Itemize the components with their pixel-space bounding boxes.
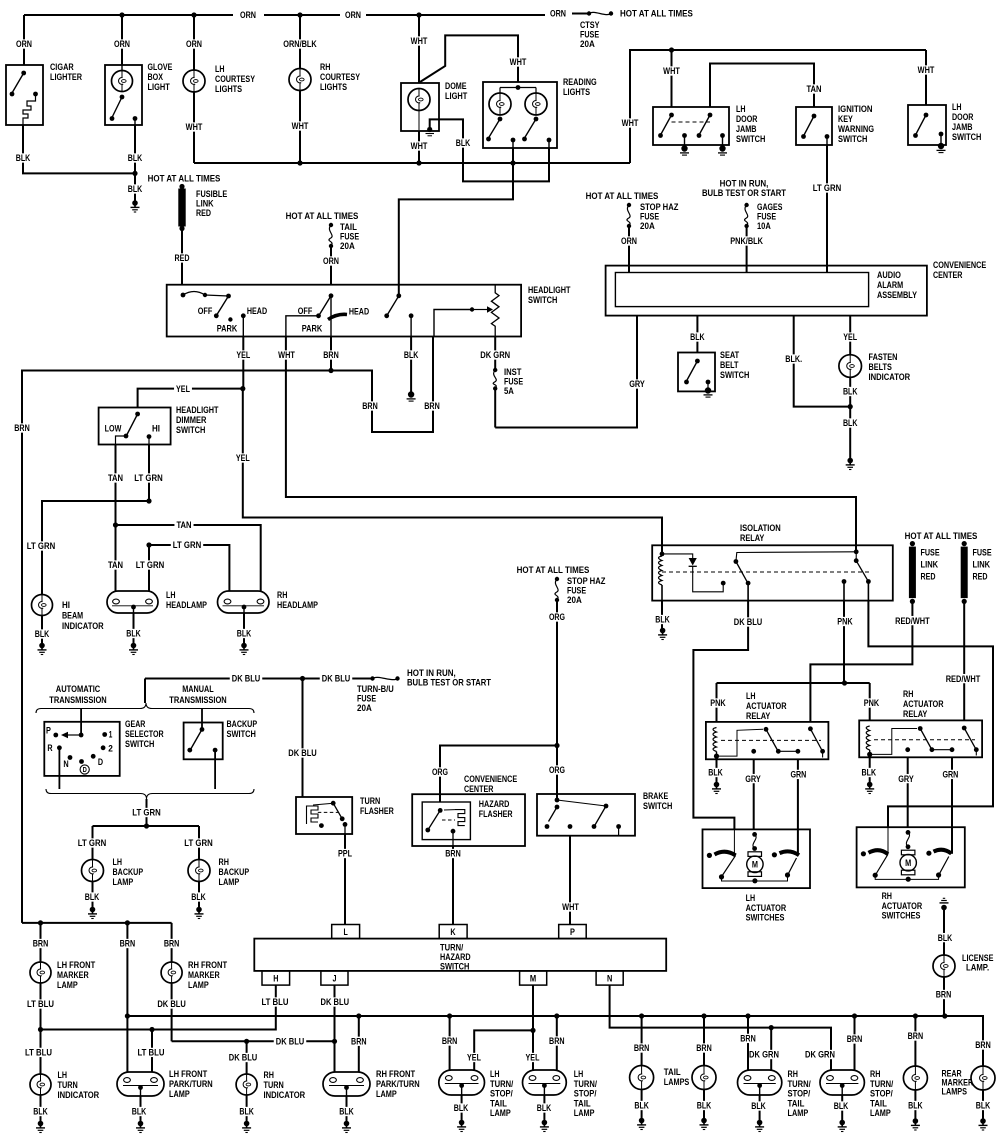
svg-text:SEAT: SEAT (720, 350, 739, 360)
svg-text:BLK: BLK (239, 1107, 254, 1117)
wire: feed to gear selector switch (80, 709, 82, 736)
node: BRN junction (328, 368, 333, 373)
connector: K (439, 925, 467, 939)
ground: RH headlamp (241, 643, 247, 649)
switch: RH actuator switches (857, 827, 965, 887)
svg-text:LOW: LOW (105, 424, 122, 434)
wire: LT GRN to backup lamps (93, 825, 200, 827)
lamp: RH turn/stop/tail lamp 1 (738, 1070, 782, 1095)
svg-text:BLK: BLK (454, 1103, 469, 1113)
svg-text:BLK.: BLK. (785, 354, 802, 364)
svg-text:TAIL: TAIL (664, 1067, 681, 1077)
svg-text:HI: HI (152, 424, 160, 434)
wire: BLK to seat belt switch (696, 316, 698, 353)
svg-text:JAMB: JAMB (952, 122, 973, 132)
svg-text:STOP/: STOP/ (870, 1089, 893, 1099)
svg-text:LIGHT: LIGHT (148, 82, 171, 92)
svg-text:LT GRN: LT GRN (136, 560, 165, 570)
svg-text:RH: RH (277, 590, 288, 600)
svg-text:MANUAL: MANUAL (182, 684, 214, 694)
ground: RH turn indicator (244, 1121, 250, 1127)
node: BRN at LH park/turn drop (125, 920, 130, 925)
fuse: TURN-B/U FUSE 20A (370, 676, 374, 680)
svg-text:RELAY: RELAY (740, 533, 765, 543)
node: bus at RH courtesy (297, 160, 302, 165)
wire: GRN LH relay to switches (797, 759, 799, 855)
wire: YEL to headlight dimmer switch (138, 389, 243, 408)
wire: GRY RH relay to switches (907, 757, 909, 827)
svg-text:BRN: BRN (120, 939, 136, 949)
switch: seat belt switch (678, 353, 715, 392)
headlight switch section 1 contacts (181, 293, 186, 298)
svg-text:LT GRN: LT GRN (78, 838, 107, 848)
svg-text:ACTUATOR: ACTUATOR (882, 901, 923, 911)
svg-text:ORG: ORG (549, 765, 565, 775)
svg-text:BELTS: BELTS (869, 362, 892, 372)
wire: RH turn/stop 2 BLK (841, 1095, 843, 1121)
svg-text:OFF: OFF (298, 306, 313, 316)
svg-text:LAMP: LAMP (490, 1108, 511, 1118)
headlight switch section 3 contacts (396, 293, 401, 298)
svg-text:SWITCHES: SWITCHES (746, 912, 785, 922)
svg-text:HOT IN RUN,: HOT IN RUN, (407, 668, 456, 678)
svg-text:10A: 10A (757, 221, 771, 231)
wire: PNK to RH actuator relay (869, 683, 871, 720)
wire: TAN to RH headlamp (116, 525, 261, 591)
svg-text:M: M (752, 860, 758, 870)
wire: DK GRN drop to RH turn/stop lamp 1 (770, 1028, 772, 1070)
svg-text:AUTOMATIC: AUTOMATIC (56, 684, 101, 694)
svg-text:RH: RH (788, 1069, 799, 1079)
svg-text:LT GRN: LT GRN (132, 808, 161, 818)
svg-text:IGNITION: IGNITION (838, 104, 873, 114)
wire: license lamp BRN to bus (943, 977, 945, 1016)
node: BRN bus at RH turn/stop 1 (745, 1013, 750, 1018)
svg-text:1: 1 (109, 730, 113, 740)
wire: BLK. from audio alarm to ground junction (794, 316, 851, 407)
wire: dome to reading lights WHT elbow (420, 35, 518, 82)
svg-text:WHT: WHT (411, 141, 428, 151)
svg-text:BRN: BRN (445, 849, 461, 859)
svg-text:TURN: TURN (58, 1080, 79, 1090)
ground: LH turn indicator (38, 1121, 44, 1127)
wire: top ORN feed bus (24, 14, 233, 16)
wire: LH door jamb to ignition key warning TAN (710, 64, 814, 108)
svg-text:RED: RED (196, 208, 211, 218)
svg-text:WHT: WHT (918, 65, 935, 75)
svg-text:ORN: ORN (114, 39, 130, 49)
svg-text:LAMP: LAMP (113, 877, 134, 887)
svg-text:CONVENIENCE: CONVENIENCE (464, 774, 517, 784)
svg-text:LIGHTS: LIGHTS (320, 82, 347, 92)
svg-text:BLK: BLK (655, 615, 670, 625)
svg-text:ISOLATION: ISOLATION (740, 523, 781, 533)
wire: PNK from isolation relay (843, 601, 845, 683)
svg-text:YEL: YEL (176, 384, 190, 394)
svg-text:FASTEN: FASTEN (869, 352, 898, 362)
switch: gear selector switch (44, 722, 119, 776)
lamp: LH headlamp (107, 591, 158, 613)
wire: BRN drop RH turn/stop 2 (854, 1016, 856, 1070)
svg-text:ORN: ORN (16, 39, 32, 49)
wire: BLK output to ground (410, 337, 412, 394)
ground: fasten belts (847, 458, 853, 464)
wire: RH courtesy WHT to bus (299, 91, 301, 164)
svg-text:KEY: KEY (838, 114, 853, 124)
wire: BRN distribution to front markers (22, 922, 172, 924)
svg-text:TRANSMISSION: TRANSMISSION (169, 695, 227, 705)
wire: gear selector R output to bracket (58, 748, 60, 789)
wire: LT BLU to LH turn indicator (40, 1030, 42, 1075)
lamp: LH turn/stop/tail lamp 1 (439, 1070, 485, 1095)
svg-text:TURN/: TURN/ (870, 1079, 894, 1089)
node: PNK junction (842, 680, 847, 685)
ground: LH headlamp (131, 643, 137, 649)
svg-text:ORN: ORN (240, 10, 256, 20)
svg-text:STOP/: STOP/ (490, 1089, 513, 1099)
ground: RH door jamb (938, 143, 944, 149)
wire: WHT bus riser to door jamb feed (630, 50, 926, 163)
wire: WHT courtesy bus (194, 162, 630, 164)
svg-text:FLASHER: FLASHER (479, 809, 513, 819)
relay: hazard flasher (422, 802, 470, 840)
ground: LH turn/stop lamp 2 (542, 1120, 548, 1126)
wire: BRN drop RH turn/stop 1 (747, 1016, 749, 1070)
svg-text:JAMB: JAMB (736, 124, 757, 134)
svg-text:ORN: ORN (621, 236, 637, 246)
wire: ORN stop haz fuse to audio alarm (628, 226, 630, 273)
wire: BRN drop tail lamp 2 (703, 1016, 705, 1066)
svg-text:BRN: BRN (696, 1043, 712, 1053)
node: BRN bus at LH park/turn (125, 1013, 130, 1018)
svg-text:SWITCH: SWITCH (838, 134, 868, 144)
lamp: RH backup lamp (188, 860, 210, 882)
svg-text:BLK: BLK (537, 1103, 552, 1113)
svg-text:WHT: WHT (510, 57, 527, 67)
svg-text:RED/WHT: RED/WHT (946, 674, 981, 684)
svg-text:LT BLU: LT BLU (138, 1048, 165, 1058)
wire: LH courtesy WHT to bus (193, 92, 195, 163)
svg-text:SWITCH: SWITCH (440, 962, 470, 972)
wire: WHT drop to LH door jamb switch (671, 50, 673, 107)
wire: rear marker 2 BLK (982, 1090, 984, 1120)
svg-text:LH: LH (574, 1069, 584, 1079)
svg-text:BLK: BLK (85, 892, 100, 902)
svg-text:LAMP: LAMP (574, 1108, 595, 1118)
svg-text:INDICATOR: INDICATOR (869, 372, 911, 382)
wire: BRN output of headlight switch (330, 337, 332, 371)
svg-text:HAZARD: HAZARD (440, 952, 471, 962)
wire: TAN from dimmer (115, 445, 117, 526)
lamp: dome light (401, 83, 439, 131)
svg-text:BLK: BLK (634, 1101, 649, 1111)
node: LT GRN junction to hi beam (146, 498, 151, 503)
wire: LT BLU from H to front bus (41, 985, 276, 1029)
wire: RH backup BLK (198, 882, 200, 909)
node: junction to LH door jamb (669, 47, 674, 52)
svg-text:HEADLIGHT: HEADLIGHT (176, 405, 219, 415)
svg-text:STOP/: STOP/ (788, 1089, 811, 1099)
wire: BRN loop to rheostat (331, 337, 433, 433)
svg-text:TURN/: TURN/ (574, 1079, 598, 1089)
wire: RH turn/stop 1 BLK (759, 1095, 761, 1121)
svg-text:WHT: WHT (622, 118, 639, 128)
switch: RH door jamb switch (908, 105, 946, 145)
box: audio alarm assembly (615, 273, 868, 307)
svg-text:BACKUP: BACKUP (113, 867, 144, 877)
wire: LH switches bottom rail (722, 875, 788, 881)
svg-text:SWITCH: SWITCH (720, 370, 750, 380)
lamp: glove box light with switch (105, 65, 142, 125)
ground: RH park/turn lamp (344, 1121, 350, 1127)
wire: PNK distribution (717, 682, 870, 684)
svg-text:PNK: PNK (710, 698, 726, 708)
svg-text:FUSE: FUSE (973, 548, 992, 558)
svg-text:LH: LH (215, 64, 225, 74)
svg-text:5A: 5A (504, 386, 514, 396)
ground: RH turn/stop lamp 2 (839, 1120, 845, 1126)
wire: fasten belts BLK (849, 377, 851, 406)
wire: YEL to LH turn/stop lamp 2 (532, 1030, 534, 1070)
svg-text:H: H (273, 973, 278, 983)
svg-text:RELAY: RELAY (746, 711, 771, 721)
relay: LH actuator relay (706, 722, 829, 759)
svg-text:2: 2 (108, 744, 113, 754)
wire: WHT output to isolation relay (286, 337, 856, 552)
wire: DK BLU from J to rear bus (334, 985, 336, 1041)
svg-text:HAZARD: HAZARD (479, 799, 510, 809)
switch: ignition key warning switch (796, 107, 832, 145)
wire: DK BLU to turn flasher (302, 679, 304, 798)
svg-text:DK BLU: DK BLU (734, 617, 763, 627)
svg-text:PNK/BLK: PNK/BLK (730, 236, 763, 246)
svg-text:BLK: BLK (697, 1101, 712, 1111)
switch: headlight switch (167, 285, 521, 337)
svg-text:BLK: BLK (132, 1107, 147, 1117)
svg-text:SWITCH: SWITCH (125, 739, 155, 749)
svg-text:SELECTOR: SELECTOR (125, 729, 164, 739)
svg-text:BLK: BLK (35, 629, 50, 639)
wire: WHT drop to dome light (418, 15, 420, 83)
wire: LT GRN from bracket (146, 799, 148, 826)
node: LT GRN backup junction (144, 823, 149, 828)
svg-text:GEAR: GEAR (125, 719, 146, 729)
ground: LH door jamb pin 2 (719, 145, 725, 151)
svg-text:RED: RED (175, 253, 190, 263)
node: bus junction at glove box (119, 12, 124, 17)
ground: tail lamp 1 (639, 1118, 645, 1124)
wire: LH headlamp BLK (133, 613, 135, 644)
svg-text:BOX: BOX (148, 72, 164, 82)
svg-text:BRN: BRN (975, 1040, 991, 1050)
svg-text:AUDIO: AUDIO (877, 270, 901, 280)
ground: hi beam indicator (39, 643, 45, 649)
svg-text:LH FRONT: LH FRONT (169, 1069, 207, 1079)
wire: ORN tail fuse to headlight switch (330, 246, 332, 285)
svg-text:BLK: BLK (128, 153, 143, 163)
svg-text:DK BLU: DK BLU (288, 748, 317, 758)
switch: turn/hazard switch (254, 939, 666, 971)
svg-text:FUSE: FUSE (921, 548, 940, 558)
wire: ORG to hazard flasher (440, 746, 557, 803)
node: YEL junction to dimmer (240, 386, 245, 391)
lamp: LH backup lamp (82, 860, 104, 882)
bracket: transmission connector brace upper (36, 703, 254, 713)
svg-text:GLOVE: GLOVE (148, 62, 173, 72)
svg-text:WHT: WHT (562, 902, 579, 912)
box: convenience center (hazard) (412, 794, 525, 846)
node: BRN bus at tail lamp 1 (639, 1013, 644, 1018)
svg-text:K: K (450, 927, 455, 937)
wire: LH turn/stop 2 BLK (543, 1095, 545, 1121)
lamp: hi beam indicator (32, 595, 53, 616)
node: DK BLU at RH turn indicator (244, 1039, 249, 1044)
ground: RH turn/stop lamp 1 (757, 1120, 763, 1126)
node: LT BLU junction at LH park/turn (149, 1027, 154, 1032)
wire: BRN drop RH front marker (171, 923, 173, 962)
svg-text:LT GRN: LT GRN (184, 838, 213, 848)
svg-text:BRN: BRN (351, 1036, 367, 1046)
node: bus at reading lights (510, 160, 515, 165)
svg-text:BRN: BRN (362, 401, 378, 411)
svg-text:DOOR: DOOR (952, 112, 974, 122)
node: BRN bus at rear marker 1 (913, 1013, 918, 1018)
wire: ORN drop to glove box light (121, 15, 123, 65)
ground: seat belt switch (705, 387, 711, 393)
box: convenience center (606, 266, 927, 316)
svg-text:DK BLU: DK BLU (229, 1053, 258, 1063)
svg-text:CIGAR: CIGAR (50, 62, 74, 72)
svg-text:BLK: BLK (237, 629, 252, 639)
svg-text:LINK: LINK (973, 560, 991, 570)
wire: BRN feed to left side (22, 371, 331, 923)
svg-text:ORN: ORN (550, 9, 566, 19)
svg-text:DK BLU: DK BLU (157, 999, 186, 1009)
svg-text:LAMP: LAMP (57, 980, 78, 990)
svg-text:LT BLU: LT BLU (262, 997, 289, 1007)
svg-text:20A: 20A (580, 39, 595, 49)
svg-text:20A: 20A (640, 221, 655, 231)
wire: TAN to LH headlamp (115, 525, 117, 591)
node: bus junction at dome light (416, 12, 421, 17)
svg-text:BRN: BRN (14, 423, 30, 433)
svg-text:HEADLIGHT: HEADLIGHT (528, 285, 571, 295)
wire: GRN RH relay to switches (951, 757, 953, 854)
svg-text:HOT AT ALL TIMES: HOT AT ALL TIMES (620, 9, 693, 19)
svg-text:RH: RH (219, 857, 230, 867)
svg-text:BRN: BRN (442, 1036, 458, 1046)
ground: RH backup lamp (196, 907, 202, 913)
svg-text:TURN: TURN (360, 796, 381, 806)
wire: LH turn/stop 1 BLK (461, 1095, 463, 1121)
lamp: license lamp (933, 955, 955, 977)
svg-text:M: M (905, 858, 911, 868)
svg-text:HEAD: HEAD (349, 306, 369, 316)
svg-text:YEL: YEL (843, 332, 857, 342)
svg-text:WARNING: WARNING (838, 124, 874, 134)
svg-text:BRN: BRN (740, 1034, 756, 1044)
node: LT GRN junction 2 (146, 542, 151, 547)
lamp: RH front park/turn lamp (323, 1072, 370, 1096)
lamp: RH courtesy lights (289, 69, 311, 91)
svg-text:LIGHTER: LIGHTER (50, 72, 82, 82)
svg-text:BLK: BLK (404, 350, 419, 360)
wire: PNK/BLK gages fuse to audio alarm (746, 226, 748, 273)
svg-text:N: N (63, 759, 69, 769)
wire: LT GRN drop RH backup (198, 826, 200, 860)
wire: ORG to brake switch (556, 746, 558, 801)
svg-text:TAN: TAN (108, 473, 123, 483)
wire: dome WHT to bus (418, 131, 420, 163)
wire: RH switches bottom rail (875, 875, 938, 879)
wire: DK GRN output (494, 337, 496, 371)
svg-text:L: L (343, 927, 348, 937)
wire: BRN drop rear marker 2 (973, 1040, 993, 1049)
svg-text:LAMP: LAMP (788, 1108, 809, 1118)
svg-text:HEAD: HEAD (247, 306, 267, 316)
ground: LH door jamb pin 1 (681, 145, 687, 151)
svg-text:LT GRN: LT GRN (27, 541, 56, 551)
svg-text:RED: RED (973, 572, 988, 582)
wire: RED/WHT fuse link to LH actuator relay (810, 601, 912, 722)
node: BRN bus at RH turn/stop 2 (852, 1013, 857, 1018)
ground: LH backup lamp (90, 907, 96, 913)
svg-text:ACTUATOR: ACTUATOR (746, 903, 787, 913)
wire: license lamp BLK (943, 908, 945, 956)
wire: tail lamp 1 BLK (641, 1090, 643, 1120)
svg-text:BRN: BRN (323, 350, 339, 360)
svg-text:P: P (46, 726, 51, 736)
svg-text:YEL: YEL (467, 1053, 481, 1063)
lamp: RH headlamp (218, 591, 270, 613)
svg-text:OFF: OFF (198, 306, 213, 316)
svg-text:LH: LH (113, 857, 123, 867)
svg-text:BLK: BLK (126, 629, 141, 639)
wire: YEL down to isolation relay (243, 389, 662, 554)
svg-text:BLK: BLK (690, 332, 705, 342)
relay: turn flasher (296, 797, 352, 834)
wire: BRN drop to LH turn/stop lamp 1 (449, 1016, 451, 1070)
lamp: reading lights (483, 82, 557, 148)
lamp: LH front marker lamp (30, 962, 51, 983)
svg-text:INDICATOR: INDICATOR (62, 621, 104, 631)
wire: LT BLU drop to LH park/turn lamp (151, 1030, 153, 1073)
svg-text:RH: RH (903, 689, 914, 699)
fuse: INST FUSE 5A (493, 368, 497, 372)
svg-text:BRN: BRN (634, 1043, 650, 1053)
wire: LH backup BLK (92, 882, 94, 909)
wire: RH headlamp BLK (243, 613, 245, 644)
svg-text:LAMP: LAMP (219, 877, 240, 887)
wire: GRY LH relay to switches (753, 759, 755, 829)
motor: LH actuator motor (752, 832, 757, 837)
svg-text:D: D (98, 757, 103, 767)
svg-text:TAIL: TAIL (788, 1098, 805, 1108)
svg-text:PARK: PARK (302, 324, 323, 334)
wire: DK GRN to GRY junction (494, 389, 496, 428)
wire: GRY from convenience center (495, 316, 637, 428)
svg-text:CENTER: CENTER (933, 270, 963, 280)
svg-text:SWITCHES: SWITCHES (882, 910, 921, 920)
svg-text:ORN/BLK: ORN/BLK (283, 39, 317, 49)
svg-text:20A: 20A (567, 595, 582, 605)
wire: cigar lighter BLK to ground junction (23, 125, 135, 173)
node: LT BLU bus at LH turn indicator (38, 1027, 43, 1032)
switch: brake switch (537, 794, 635, 836)
svg-text:BRN: BRN (847, 1034, 863, 1044)
node: BRN bus at LH turn/stop 1 (447, 1013, 452, 1018)
svg-text:YEL: YEL (526, 1053, 540, 1063)
